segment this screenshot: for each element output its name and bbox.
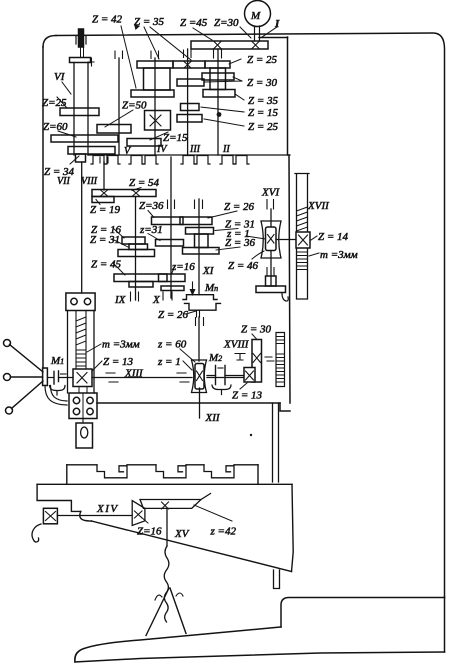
spindle sleeve <box>74 63 88 156</box>
drill stand triangle <box>146 588 186 636</box>
fleck <box>250 434 252 436</box>
wedge right edge <box>292 484 294 571</box>
rack bar <box>295 174 309 300</box>
leader Z=16 left <box>113 228 124 238</box>
bevel gear Z=42 flag <box>140 494 211 509</box>
svg-text:Z=60: Z=60 <box>43 121 68 133</box>
leader z=60 <box>180 349 195 362</box>
svg-text:Z = 25: Z = 25 <box>248 121 279 133</box>
hub on II <box>210 68 226 90</box>
leader Z=60 <box>58 131 76 137</box>
M1 coupling <box>49 377 54 379</box>
gear Z=15 on IV <box>127 139 161 147</box>
M2 shaft <box>207 375 245 377</box>
gearbox bottom edge <box>97 402 280 404</box>
clutch stem <box>197 310 200 317</box>
leader Z=35 b <box>150 27 191 60</box>
leader Z=30 fork <box>205 77 242 82</box>
hub on IV <box>144 68 171 90</box>
leader Z=35 a <box>144 27 159 59</box>
leader Z=15 <box>201 107 244 112</box>
gearbox housing right edge lower <box>289 155 290 403</box>
shaft X bottom ticks <box>163 292 172 300</box>
small arrowhead near Z=35 <box>134 24 140 30</box>
four circle box <box>69 393 97 419</box>
gear Z=35 on II <box>203 90 235 98</box>
shaft IX bottom ticks <box>131 292 139 301</box>
svg-text:Z = 19: Z = 19 <box>90 204 121 216</box>
svg-text:М: М <box>250 10 261 22</box>
x mark on III gear <box>184 62 191 69</box>
hub bar <box>43 368 48 386</box>
shaft XII upper <box>198 317 200 361</box>
leader I <box>262 27 277 37</box>
svg-text:Z = 15: Z = 15 <box>248 107 279 119</box>
svg-text:m =3мм: m =3мм <box>102 339 140 351</box>
svg-text:М2: М2 <box>208 352 222 364</box>
wedge left curl <box>80 511 92 521</box>
svg-text:Z = 26: Z = 26 <box>224 201 255 213</box>
leader Z=30 <box>240 27 251 38</box>
svg-text:Z = 30: Z = 30 <box>247 77 278 89</box>
svg-text:X: X <box>152 294 161 306</box>
tall rect XVIII <box>252 340 262 383</box>
rod lower piece <box>274 570 280 589</box>
worm wheel Z=46 blades <box>261 221 281 258</box>
svg-text:Z=15: Z=15 <box>163 132 188 144</box>
gear Z=45 on IX <box>114 274 167 282</box>
leader z=31 mid <box>148 234 160 241</box>
gear top on IV <box>137 61 173 68</box>
svg-text:XII: XII <box>205 412 221 424</box>
leader z=16 mid <box>171 266 175 275</box>
gear z=16 on X <box>159 274 186 282</box>
outer sleeve <box>68 311 95 394</box>
gear Z=54 bar <box>92 190 156 197</box>
M2 coupling <box>216 366 226 385</box>
gear lower on IV <box>131 90 174 97</box>
svg-text:IV: IV <box>156 144 168 155</box>
spindle lower line <box>81 162 83 293</box>
gearbox housing left edge <box>42 47 44 368</box>
svg-text:Z = 54: Z = 54 <box>129 177 160 189</box>
gear Z=30 on II <box>202 73 234 80</box>
leader Z=13 left <box>92 361 102 371</box>
leader Z=36 mid <box>148 211 154 218</box>
worm box Z=14 <box>296 232 310 248</box>
gear Z=31 on XI <box>186 228 214 235</box>
svg-text:Z = 26: Z = 26 <box>158 309 189 321</box>
gear 4 on III <box>177 115 202 123</box>
inner quill <box>76 311 86 370</box>
spindle upper shaft <box>81 47 84 58</box>
band left edge <box>66 465 68 485</box>
spoke 3 <box>12 381 44 409</box>
worm hatch on rack <box>297 207 308 231</box>
gear Z=50 on V <box>97 125 131 134</box>
x mark on shaft I left <box>214 42 221 49</box>
shaft III top ticks <box>184 50 192 58</box>
bearing wall line y=155 <box>88 154 290 156</box>
shaft XVI ticks top <box>267 200 274 210</box>
svg-text:XI: XI <box>202 265 215 277</box>
shaft XI top ticks <box>195 200 203 209</box>
gear 2 on X <box>156 240 184 247</box>
T mark under XVIII label <box>235 354 245 361</box>
rack teeth <box>297 252 308 270</box>
motor stem <box>255 26 260 41</box>
svg-text:Z=36: Z=36 <box>139 200 164 212</box>
svg-text:Мп: Мп <box>204 282 218 294</box>
shaft XV <box>166 508 168 546</box>
leader z=42 <box>194 505 232 521</box>
sleeve handle tick <box>88 58 94 66</box>
link XVI wheel to XVII box <box>276 239 296 241</box>
leader m=3mm right <box>309 253 319 256</box>
dot on shaft II <box>217 112 222 117</box>
spindle tip <box>79 29 84 47</box>
svg-text:VIII: VIII <box>81 176 98 187</box>
shaft I gear bar <box>191 41 268 49</box>
machine outline top and right edge with rounded corner <box>56 33 445 597</box>
ledge from motor foot to housing right corner <box>259 37 288 39</box>
spoke 1 <box>10 345 44 373</box>
bearing hooks under wall <box>91 156 249 165</box>
x marks on Z=54 <box>101 190 108 196</box>
leader Z=50 <box>105 110 133 127</box>
shaft X upper ticks <box>168 200 175 209</box>
gear top on III <box>173 61 205 68</box>
crank hook <box>32 524 41 542</box>
gear Z=34 <box>68 147 115 155</box>
base bottom edge <box>75 652 445 662</box>
svg-text:Z = 45: Z = 45 <box>91 259 122 271</box>
svg-text:Z = 46: Z = 46 <box>228 260 259 272</box>
clutch lower plate <box>185 303 221 310</box>
svg-text:XVI: XVI <box>261 187 280 199</box>
svg-text:Z = 31: Z = 31 <box>90 234 120 246</box>
leader Z=14 <box>311 236 317 240</box>
oil drop hook <box>282 293 288 301</box>
svg-text:VII: VII <box>57 176 70 187</box>
wedge left steps <box>37 484 81 511</box>
leader Z=25 bottom <box>204 119 244 126</box>
gear 1 on X <box>152 217 184 225</box>
leader Z=54 <box>132 188 141 191</box>
shaft XII ticks <box>196 318 204 326</box>
svg-text:Z=30: Z=30 <box>214 17 239 29</box>
pa box <box>66 293 95 311</box>
gear Z=25 on VI <box>60 108 99 116</box>
leader z=1 left <box>183 361 192 370</box>
column right edge lower / base right edge <box>444 597 446 652</box>
leader Z=30 <box>252 334 257 340</box>
wedge bottom slant <box>92 521 292 572</box>
crank box <box>43 508 57 524</box>
leader z=1 right <box>246 236 266 239</box>
table block with rounded corner <box>281 598 445 628</box>
T symbol between boxes <box>79 387 87 394</box>
gear Z=19 <box>92 197 114 203</box>
svg-text:XV: XV <box>174 528 190 540</box>
XVI foot stem <box>266 276 277 286</box>
hub on IX <box>129 244 148 250</box>
gearbox bottom right step <box>280 403 290 411</box>
hub under Z=34 <box>76 154 86 162</box>
x mark on shaft I right <box>252 42 259 49</box>
gear 2 on IX <box>118 250 155 257</box>
break marks on XIII <box>106 373 189 382</box>
svg-text:Z = 30: Z = 30 <box>241 324 272 336</box>
shaft XII lower <box>199 388 201 418</box>
wires to switch box <box>45 386 67 406</box>
hub under Z=45 <box>129 282 153 288</box>
shaft IV top ticks <box>151 51 159 59</box>
leader Z=34 <box>70 156 79 164</box>
svg-text:Z = 25: Z = 25 <box>247 54 278 66</box>
leader VI <box>62 82 71 94</box>
shaft II top ticks <box>214 50 222 58</box>
svg-text:Z = 14: Z = 14 <box>318 231 349 243</box>
gear Z=26 on XI <box>180 217 212 225</box>
svg-text:VI: VI <box>54 71 66 83</box>
wide gear Z=60 on VI <box>51 135 118 142</box>
gear 3 on III <box>181 104 200 111</box>
leader Z=35 <box>235 94 244 100</box>
svg-text:Z = 42: Z = 42 <box>92 14 123 26</box>
sleeve top flange <box>70 58 91 63</box>
gear Z=36 on XI <box>183 248 220 255</box>
svg-text:Z = 13: Z = 13 <box>232 390 263 402</box>
small rect XVIII <box>244 368 255 383</box>
svg-text:z = 60: z = 60 <box>157 339 187 351</box>
shaft V top ticks <box>115 51 123 59</box>
leader Z=13 right <box>240 383 247 389</box>
arrow into clutch <box>192 282 194 290</box>
quill rack hatch <box>76 317 86 345</box>
leader Z=31 right <box>215 229 238 231</box>
svg-text:III: III <box>189 144 201 155</box>
svg-text:Z = 35: Z = 35 <box>248 95 279 107</box>
leader Z=25 left <box>57 97 67 108</box>
shaft XVI bottom ticks <box>267 268 274 277</box>
svg-text:М1: М1 <box>50 355 64 367</box>
arc marks near apex <box>155 593 183 600</box>
svg-text:z =42: z =42 <box>210 526 237 538</box>
gear 2 on III <box>177 79 204 86</box>
bearing ticks in housing top <box>76 37 86 45</box>
XVI foot bar <box>256 286 286 293</box>
svg-text:XVIII: XVIII <box>223 339 250 351</box>
bracket under M2 <box>212 385 231 395</box>
foot bar under X <box>161 286 184 291</box>
svg-text:XIII: XIII <box>124 368 144 380</box>
svg-text:z = 1: z = 1 <box>157 356 181 368</box>
leader Z=45 <box>193 28 212 40</box>
worm box on quill <box>73 369 92 387</box>
svg-text:IX: IX <box>114 294 127 306</box>
leader Z=42 <box>121 26 136 88</box>
gear 1 on IX <box>122 237 145 244</box>
svg-text:Z=16: Z=16 <box>137 526 162 538</box>
hub on XI <box>195 234 209 248</box>
shaft XVI <box>270 209 272 285</box>
flexible wavy line <box>164 546 169 622</box>
bracket under M1 <box>50 386 66 396</box>
shaft XIV line <box>57 515 132 517</box>
gearbox housing rounded top-left corner <box>43 36 56 48</box>
leader m=3mm left <box>87 344 101 352</box>
leader Z=26 right <box>208 211 237 218</box>
leader Z=46 <box>252 251 264 259</box>
T slot notch 1 <box>97 465 127 478</box>
clutch upper plate <box>183 295 217 300</box>
leader Z=31 left <box>112 239 128 247</box>
T slot notch 3 <box>204 465 234 478</box>
shaft VIII ticks <box>100 157 108 163</box>
svg-text:Z=25: Z=25 <box>42 97 67 109</box>
gearbox housing right edge upper <box>287 37 289 155</box>
leader Z=45 <box>113 263 125 275</box>
spoke 2 <box>11 376 43 378</box>
rod down from gearbox <box>273 403 279 482</box>
svg-text:XVII: XVII <box>307 200 330 212</box>
leader Z=19 <box>96 200 100 205</box>
clutch block with x on IV <box>145 111 171 131</box>
wedge top edge <box>37 483 292 485</box>
bevel pinion on XIV <box>132 501 145 526</box>
band right edge <box>257 465 259 485</box>
svg-text:m =3мм: m =3мм <box>320 249 358 261</box>
quill rack teeth <box>76 350 86 366</box>
worm wheel core <box>266 227 277 251</box>
leader Z=36 right <box>216 247 240 250</box>
break marks near XVIII <box>265 357 274 361</box>
leader Z=25 top <box>229 59 241 64</box>
svg-text:Z =45: Z =45 <box>180 17 208 29</box>
base left rounded end and top edge <box>75 627 281 662</box>
leader Z=26 bottom <box>186 311 196 314</box>
zero box <box>82 419 84 424</box>
svg-text:Z=50: Z=50 <box>122 100 147 112</box>
svg-text:XIV: XIV <box>96 503 119 515</box>
svg-text:Z = 13: Z = 13 <box>103 356 134 368</box>
band top line segments <box>67 464 258 466</box>
gear Z=25 on II <box>205 61 230 68</box>
leader Z=15 under IV <box>150 132 168 140</box>
motor M circle <box>245 1 271 27</box>
leader Z=16 bottom <box>141 517 148 523</box>
T slot notch 2 <box>156 465 186 478</box>
column rack right <box>276 333 285 387</box>
svg-text:II: II <box>222 144 230 155</box>
svg-text:z=31: z=31 <box>139 224 163 236</box>
